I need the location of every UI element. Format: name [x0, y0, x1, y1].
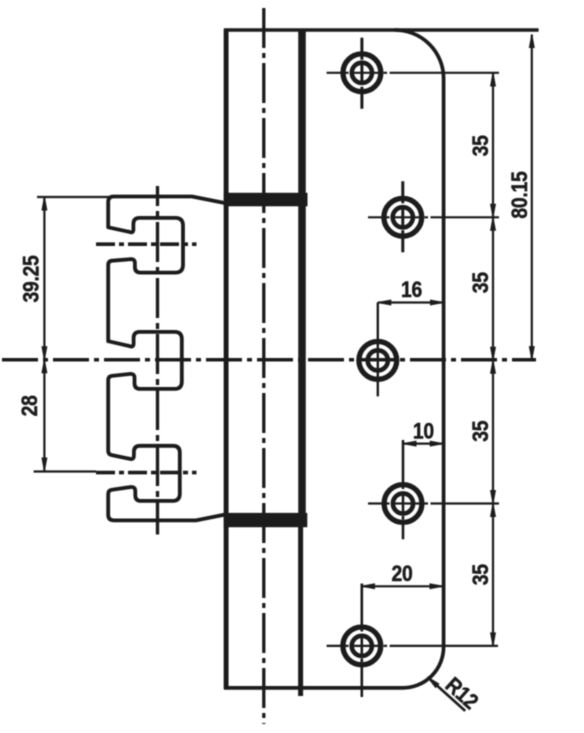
svg-text:10: 10 [413, 419, 434, 443]
svg-text:28: 28 [18, 395, 42, 416]
svg-text:35: 35 [469, 272, 493, 293]
svg-text:35: 35 [469, 564, 493, 585]
svg-text:35: 35 [469, 135, 493, 156]
svg-text:39.25: 39.25 [19, 255, 43, 302]
svg-text:20: 20 [391, 562, 412, 586]
svg-text:35: 35 [469, 421, 493, 442]
svg-text:16: 16 [401, 278, 422, 302]
svg-text:80.15: 80.15 [508, 172, 532, 219]
svg-text:R12: R12 [440, 673, 482, 714]
